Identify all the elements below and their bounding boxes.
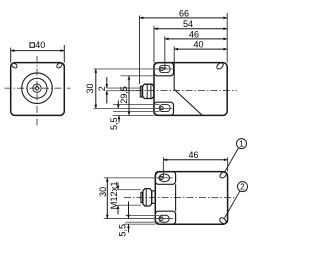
svg-text:1: 1 bbox=[239, 140, 244, 149]
svg-text:2: 2 bbox=[240, 183, 245, 192]
svg-text:5,5: 5,5 bbox=[109, 117, 119, 130]
svg-text:46: 46 bbox=[189, 150, 199, 160]
svg-text:40: 40 bbox=[194, 40, 204, 50]
svg-text:29,5: 29,5 bbox=[119, 86, 129, 104]
svg-text:30: 30 bbox=[85, 83, 95, 93]
svg-text:M12x1: M12x1 bbox=[109, 181, 119, 209]
svg-text:54: 54 bbox=[183, 19, 193, 29]
svg-text:40: 40 bbox=[35, 40, 45, 50]
svg-text:5,5: 5,5 bbox=[118, 224, 128, 237]
svg-text:46: 46 bbox=[189, 29, 199, 39]
svg-text:30: 30 bbox=[98, 187, 108, 197]
svg-text:66: 66 bbox=[179, 8, 189, 18]
svg-text:2: 2 bbox=[97, 86, 107, 91]
